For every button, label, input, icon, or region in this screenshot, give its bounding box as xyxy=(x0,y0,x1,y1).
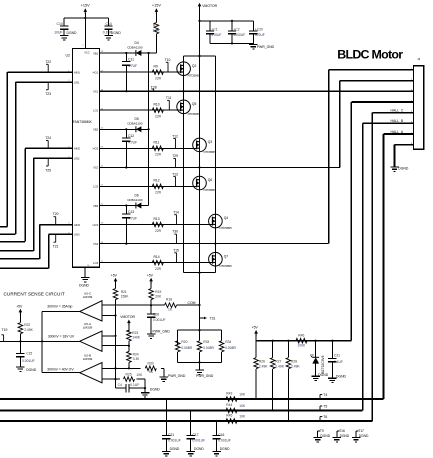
ground PWR_GND at sense xyxy=(195,362,214,378)
svg-text:HO2: HO2 xyxy=(93,147,99,151)
svg-text:R26: R26 xyxy=(259,359,265,363)
wire J2 pin4 hall +5V xyxy=(351,102,413,341)
svg-text:140K: 140K xyxy=(132,336,141,340)
wire 300mV reference xyxy=(0,340,80,342)
svg-text:HO3: HO3 xyxy=(93,223,99,227)
svg-text:T5: T5 xyxy=(323,404,327,408)
resistor R28 2.49K pullup xyxy=(286,341,300,421)
svg-text:R33: R33 xyxy=(203,340,209,344)
svg-text:T20: T20 xyxy=(53,212,59,216)
svg-text:J2: J2 xyxy=(417,57,420,61)
svg-text:C4: C4 xyxy=(118,383,122,387)
svg-text:T14: T14 xyxy=(173,211,179,215)
svg-text:R9: R9 xyxy=(154,64,158,68)
transistor Q2 NTD5865 xyxy=(177,62,201,78)
ground PWR_GND at C28 xyxy=(147,317,171,338)
svg-text:PWR_GND: PWR_GND xyxy=(153,330,171,334)
wire J2 pin6 HALL_B xyxy=(363,119,414,410)
svg-text:R13: R13 xyxy=(154,217,160,221)
svg-text:VS2: VS2 xyxy=(93,166,99,170)
svg-text:NTD5865: NTD5865 xyxy=(219,264,232,268)
svg-text:VMOTOR: VMOTOR xyxy=(202,4,217,8)
svg-text:DGND: DGND xyxy=(111,31,122,35)
svg-text:DGND: DGND xyxy=(318,373,329,377)
svg-text:T12: T12 xyxy=(172,134,178,138)
svg-text:PWR_GND: PWR_GND xyxy=(196,374,214,378)
power +5V at R22 xyxy=(16,305,23,323)
svg-text:HO1: HO1 xyxy=(93,70,99,74)
svg-text:LM339: LM339 xyxy=(83,295,93,299)
J2 pin numbers xyxy=(411,68,413,145)
svg-text:2.49K: 2.49K xyxy=(24,328,33,332)
wire input LIN2 with test point T25 xyxy=(0,158,73,251)
wire J2 pin8 to DGND xyxy=(395,145,414,167)
svg-text:T16: T16 xyxy=(339,429,345,433)
svg-text:R20: R20 xyxy=(181,340,187,344)
resistor R25 10K xyxy=(124,372,146,381)
resistor R27 2.49K pullup xyxy=(270,341,284,411)
svg-text:2.49K: 2.49K xyxy=(259,364,268,368)
resistor R16 2.2R xyxy=(153,23,161,34)
svg-text:C28: C28 xyxy=(153,313,159,317)
svg-text:C31: C31 xyxy=(334,353,340,357)
power +5V at R21 xyxy=(111,274,118,284)
svg-text:LO2: LO2 xyxy=(93,185,99,189)
svg-text:HALL_B: HALL_B xyxy=(391,119,404,123)
svg-text:10K: 10K xyxy=(239,392,246,396)
svg-text:4.7UF: 4.7UF xyxy=(128,64,137,68)
svg-text:+C2: +C2 xyxy=(234,27,240,31)
wire hall bus 2 xyxy=(0,409,363,411)
op-amp driver IC U2 FAN7388MX body xyxy=(66,49,100,268)
svg-text:FAN7388MX: FAN7388MX xyxy=(73,120,93,124)
wire U5-B input lower / R25 node xyxy=(102,378,120,380)
wire reference rail xyxy=(115,316,117,389)
diode D5 CDBA1100 xyxy=(127,117,143,132)
svg-text:DGND: DGND xyxy=(26,368,37,372)
power +5V hall rail xyxy=(252,326,259,341)
svg-text:+5V: +5V xyxy=(147,274,154,278)
svg-text:T11: T11 xyxy=(166,96,172,100)
svg-text:Q6: Q6 xyxy=(208,178,213,182)
svg-text:10K: 10K xyxy=(239,414,246,418)
transistor Q4 NTD5865 xyxy=(209,214,233,230)
svg-text:+5V: +5V xyxy=(111,274,118,278)
wire VMOTOR cap rail xyxy=(198,20,253,31)
svg-text:22R: 22R xyxy=(155,229,162,233)
svg-text:10K: 10K xyxy=(239,404,246,408)
resistor R10 22R gate drive with test point T11 xyxy=(99,96,180,118)
svg-text:R44: R44 xyxy=(226,403,232,407)
zener diode D8 BZT52C3V6 xyxy=(310,341,325,374)
svg-text:COM: COM xyxy=(188,301,196,305)
resistor R20 0.008R xyxy=(175,330,192,362)
svg-text:DGND: DGND xyxy=(336,375,347,379)
svg-text:T15: T15 xyxy=(173,249,179,253)
svg-text:0.008R: 0.008R xyxy=(203,346,214,350)
power +5V at R19 xyxy=(147,274,154,284)
wire input HIN3 with test point T20 xyxy=(0,212,73,259)
test point T16 DGND xyxy=(333,429,350,442)
capacitor C13 4.7UF bootstrap xyxy=(122,206,137,245)
test point T31 xyxy=(200,317,216,321)
svg-text:C15: C15 xyxy=(26,351,32,355)
svg-text:3.3K: 3.3K xyxy=(133,357,141,361)
wire input HIN1 with test point T22 xyxy=(0,60,73,227)
transistor Q3 NTD5865 xyxy=(193,138,217,154)
op-amp U5-B LM339 xyxy=(80,354,102,383)
svg-text:470UF: 470UF xyxy=(212,33,222,37)
resistor R12 22R gate drive with test point T13 xyxy=(99,172,196,194)
wire +5V hall rail horizontal xyxy=(256,340,351,342)
svg-text:DGND: DGND xyxy=(398,167,409,171)
svg-text:0.008R: 0.008R xyxy=(181,346,192,350)
svg-text:HALL_C: HALL_C xyxy=(391,108,404,112)
test point T5 xyxy=(320,404,327,410)
wire VB row D6 xyxy=(99,204,148,206)
resistor R26 2.49K pullup xyxy=(254,341,269,399)
svg-text:R16: R16 xyxy=(153,24,159,28)
svg-text:T6: T6 xyxy=(323,415,327,419)
svg-text:+5V: +5V xyxy=(252,326,259,330)
svg-text:LM339: LM339 xyxy=(83,357,93,361)
resistor R13 22R gate drive with test point T14 xyxy=(99,211,212,233)
svg-text:PWR_GND: PWR_GND xyxy=(168,374,186,378)
test point T4 xyxy=(320,393,327,399)
svg-text:Q5: Q5 xyxy=(192,102,197,106)
svg-text:T4: T4 xyxy=(323,393,327,397)
svg-text:T19: T19 xyxy=(2,328,8,332)
svg-text:470UF: 470UF xyxy=(255,33,265,37)
resistor R24 3.3K xyxy=(127,346,141,369)
svg-text:LO3: LO3 xyxy=(93,261,99,265)
resistor R46 100K xyxy=(296,334,307,348)
wire R16 to bootstrap rail xyxy=(149,34,157,53)
label BLDC Motor xyxy=(337,47,403,61)
svg-text:LIN1: LIN1 xyxy=(74,80,80,84)
capacitor C21 0.001UF hall filter xyxy=(162,399,181,456)
svg-text:R23: R23 xyxy=(132,331,138,335)
svg-text:100K: 100K xyxy=(298,343,307,347)
svg-text:T21: T21 xyxy=(53,245,59,249)
svg-text:CDBA1100: CDBA1100 xyxy=(127,45,143,49)
svg-text:300mV = 35Amp: 300mV = 35Amp xyxy=(47,305,72,309)
ground DGND at J2 pin8 xyxy=(390,167,409,172)
capacitor C31 0.1UF xyxy=(328,341,343,364)
svg-text:C12: C12 xyxy=(128,134,134,138)
svg-text:R18: R18 xyxy=(166,298,172,302)
wire sense box top xyxy=(178,329,222,331)
test point T17 DGND xyxy=(352,429,369,442)
svg-text:R12: R12 xyxy=(154,179,160,183)
svg-text:R11: R11 xyxy=(154,141,160,145)
resistor R23 140K xyxy=(127,330,141,346)
ground DGND at C31 xyxy=(328,362,346,383)
svg-text:DGND: DGND xyxy=(194,447,204,451)
svg-text:NTD5865: NTD5865 xyxy=(204,150,217,154)
wire FET column A xyxy=(183,56,185,273)
svg-text:D4: D4 xyxy=(135,41,139,45)
svg-text:C17: C17 xyxy=(193,433,199,437)
svg-text:R28: R28 xyxy=(291,359,297,363)
wire phase C (VS3) xyxy=(99,230,328,245)
svg-text:22R: 22R xyxy=(155,115,162,119)
svg-text:2200UF: 2200UF xyxy=(234,33,246,37)
svg-text:T9: T9 xyxy=(320,429,324,433)
svg-text:10K: 10K xyxy=(136,373,143,377)
power +15V (VCC rail) xyxy=(81,3,90,48)
svg-text:Q7: Q7 xyxy=(224,254,229,258)
wire J2 pin7 HALL_A xyxy=(384,130,414,399)
capacitor C16 0.001UF hall filter xyxy=(212,421,231,456)
svg-text:T29: T29 xyxy=(172,154,178,158)
svg-text:22R: 22R xyxy=(155,267,162,271)
svg-text:300mV = 18V UV: 300mV = 18V UV xyxy=(48,334,75,338)
resistor R22 2.49K xyxy=(18,323,34,342)
label CURRENT SENSE CIRCUIT xyxy=(4,292,65,297)
wire U5-C inputs xyxy=(102,314,117,316)
svg-text:HALL_A: HALL_A xyxy=(391,130,404,134)
ground DGND at C15 xyxy=(16,357,37,372)
svg-text:C14: C14 xyxy=(106,22,112,26)
svg-text:4.7UF: 4.7UF xyxy=(128,140,137,144)
svg-text:D5: D5 xyxy=(135,117,139,121)
wire FET column C xyxy=(214,56,216,273)
test point T9 DGND xyxy=(313,429,330,442)
svg-text:2.49K: 2.49K xyxy=(275,364,284,368)
svg-text:NTD5865: NTD5865 xyxy=(188,112,201,116)
svg-text:300mV = 40V OV: 300mV = 40V OV xyxy=(47,367,74,371)
svg-text:HIN3: HIN3 xyxy=(74,223,81,227)
svg-text:DGND: DGND xyxy=(79,284,90,288)
capacitor C28 0.001UF xyxy=(147,305,166,322)
svg-text:T23: T23 xyxy=(45,92,51,96)
resistor R34 0.008R xyxy=(219,330,236,362)
wire COM node vertical xyxy=(188,273,201,331)
svg-text:BZT52C3V6: BZT52C3V6 xyxy=(321,355,325,373)
wire J2 pin5 HALL_C xyxy=(372,108,413,421)
resistor R14 22R gate drive with test point T15 xyxy=(99,249,212,271)
resistor R44 10K xyxy=(226,403,246,413)
svg-text:R10: R10 xyxy=(154,103,160,107)
power VMOTOR arrow xyxy=(198,3,218,56)
capacitor C20 470UF xyxy=(249,27,265,37)
svg-text:R27: R27 xyxy=(275,359,281,363)
op-amp U5-A LM339 xyxy=(80,322,102,351)
capacitor C11 4.7UF bootstrap xyxy=(122,53,137,92)
transistor Q5 NTD5865 xyxy=(177,100,201,116)
capacitor C15 0.001UF xyxy=(16,341,34,363)
diode D6 CDBA1100 xyxy=(127,193,143,208)
svg-text:R25: R25 xyxy=(126,372,132,376)
svg-text:LO1: LO1 xyxy=(93,109,99,113)
capacitor C4 0.1UF xyxy=(116,383,146,392)
wire cap bank bottom xyxy=(210,34,253,45)
svg-text:LM339: LM339 xyxy=(83,326,93,330)
wire FET column B xyxy=(199,56,201,273)
svg-text:CDBA1100: CDBA1100 xyxy=(127,198,143,202)
svg-text:T17: T17 xyxy=(358,429,364,433)
svg-text:0.001UF: 0.001UF xyxy=(153,318,166,322)
power +15V (bootstrap feed) xyxy=(152,3,161,22)
resistor R45 10K xyxy=(226,414,246,424)
transistor Q7 NTD5865 xyxy=(209,252,233,268)
svg-text:R14: R14 xyxy=(154,255,160,259)
svg-text:22R: 22R xyxy=(155,76,162,80)
wire sense box bottom xyxy=(178,361,222,363)
svg-text:PWR_GND: PWR_GND xyxy=(257,45,275,49)
svg-text:Q3: Q3 xyxy=(208,140,213,144)
capacitor C10 10UF xyxy=(54,22,68,35)
wire J2 pin1 to phase C xyxy=(329,70,414,244)
svg-text:C11: C11 xyxy=(128,58,134,62)
svg-text:T13: T13 xyxy=(172,172,178,176)
wire input LIN1 with test point T23 xyxy=(0,82,73,234)
svg-text:22R: 22R xyxy=(155,153,162,157)
U2 top pin VCC xyxy=(82,45,89,54)
svg-text:Q4: Q4 xyxy=(224,216,229,220)
wire phase B (VS2) xyxy=(99,154,340,168)
svg-text:158K: 158K xyxy=(121,294,130,298)
svg-text:R43: R43 xyxy=(226,392,232,396)
svg-text:0.1UF: 0.1UF xyxy=(130,383,139,387)
wire hall bus 1 xyxy=(0,398,384,400)
resistor R33 0.008R xyxy=(197,330,214,362)
wire drain rail from VMOTOR xyxy=(184,55,216,57)
resistor R18 1K xyxy=(151,298,199,312)
wire +15V bootstrap rail xyxy=(148,52,150,206)
svg-text:NTD5865: NTD5865 xyxy=(204,188,217,192)
wire low-side source tie xyxy=(184,272,216,274)
wire J2 pin2 to phase B xyxy=(340,81,414,168)
svg-text:T22: T22 xyxy=(45,60,51,64)
svg-text:R45: R45 xyxy=(226,414,232,418)
label 300mV = 35Amp xyxy=(47,305,72,309)
svg-text:C13: C13 xyxy=(128,210,134,214)
svg-text:+15V: +15V xyxy=(152,3,161,7)
transistor Q6 NTD5865 xyxy=(193,176,217,192)
test point T19 xyxy=(1,328,7,341)
wire comparator output bus xyxy=(41,312,80,373)
svg-text:T10: T10 xyxy=(165,58,171,62)
svg-text:0.1UF: 0.1UF xyxy=(334,360,343,364)
svg-text:R34: R34 xyxy=(225,340,231,344)
svg-text:2.49K: 2.49K xyxy=(291,364,300,368)
svg-text:T30: T30 xyxy=(172,230,178,234)
svg-text:R24: R24 xyxy=(133,352,139,356)
wire VB row D4 xyxy=(99,52,148,54)
svg-text:C10: C10 xyxy=(57,22,63,26)
svg-text:VS3: VS3 xyxy=(93,242,99,246)
wire +15V rail to decoupling caps xyxy=(64,17,108,26)
svg-text:0.001UF: 0.001UF xyxy=(168,439,181,443)
resistor R11 22R gate drive with test point T12 xyxy=(99,134,196,156)
svg-text:0.001UF: 0.001UF xyxy=(22,359,35,363)
svg-text:HIN2: HIN2 xyxy=(74,147,81,151)
power VMOTOR at divider xyxy=(120,315,135,331)
svg-text:+C1: +C1 xyxy=(212,27,218,31)
svg-text:LIN2: LIN2 xyxy=(74,157,80,161)
svg-text:T24: T24 xyxy=(45,136,51,140)
ground PWR_GND at cap bank xyxy=(249,43,275,49)
wire U5-A input lower xyxy=(102,345,130,347)
svg-text:4.7UF: 4.7UF xyxy=(128,217,137,221)
wire U5-A input upper xyxy=(102,335,117,337)
svg-text:T31: T31 xyxy=(210,317,216,321)
resistor R21 158K xyxy=(113,282,129,316)
svg-text:NTD5865: NTD5865 xyxy=(219,226,232,230)
svg-text:BLDC Motor: BLDC Motor xyxy=(337,47,403,61)
svg-text:22R: 22R xyxy=(155,191,162,195)
ground PWR_GND at R30 xyxy=(160,368,186,381)
ground DGND at R25/C4 xyxy=(141,379,161,397)
svg-text:LIN3: LIN3 xyxy=(74,233,80,237)
svg-text:DGND: DGND xyxy=(220,447,230,451)
svg-text:NTD5865: NTD5865 xyxy=(188,74,201,78)
wire input LIN3 with test point T21 xyxy=(0,234,73,268)
svg-text:DGND: DGND xyxy=(150,387,161,391)
svg-text:VB2: VB2 xyxy=(93,128,99,132)
U2 left pin names HIN1-LIN3 xyxy=(68,70,80,236)
svg-text:0.008R: 0.008R xyxy=(225,346,236,350)
svg-text:0.001UF: 0.001UF xyxy=(193,439,206,443)
svg-text:Q2: Q2 xyxy=(192,64,197,68)
capacitor C14 0.1UF xyxy=(103,22,113,35)
svg-text:R22: R22 xyxy=(24,323,30,327)
svg-text:T28: T28 xyxy=(151,86,157,90)
resistor R43 10K xyxy=(226,392,246,402)
svg-text:C21: C21 xyxy=(168,433,174,437)
U2 right pin names VB1-LO3 xyxy=(93,51,104,265)
svg-text:+15V: +15V xyxy=(81,3,90,7)
capacitor C2 2200UF xyxy=(228,27,245,37)
svg-text:VB3: VB3 xyxy=(93,204,99,208)
svg-text:R30: R30 xyxy=(148,361,154,365)
resistor R9 22R gate drive with test point T10 xyxy=(99,58,180,80)
svg-text:VMOTOR: VMOTOR xyxy=(120,315,135,319)
test point T6 xyxy=(320,415,327,421)
wire comparator sense line xyxy=(102,304,152,306)
svg-text:20K: 20K xyxy=(155,294,162,298)
wire U5-B input upper xyxy=(102,367,130,369)
svg-text:HIN1: HIN1 xyxy=(74,70,81,74)
wire phase A (VS1) to J2 pin 3 xyxy=(99,86,413,93)
diode D4 CDBA1100 xyxy=(127,41,143,56)
wire VB row D5 xyxy=(99,128,148,130)
svg-text:+5V: +5V xyxy=(16,305,23,309)
svg-text:DGND: DGND xyxy=(67,31,78,35)
svg-text:10UF: 10UF xyxy=(54,30,62,34)
wire input HIN2 with test point T24 xyxy=(0,136,73,242)
svg-text:R46: R46 xyxy=(298,334,304,338)
svg-text:U2: U2 xyxy=(66,54,70,58)
svg-text:CURRENT SENSE CIRCUIT: CURRENT SENSE CIRCUIT xyxy=(4,292,65,297)
svg-text:CDBA1100: CDBA1100 xyxy=(127,122,143,126)
svg-text:C16: C16 xyxy=(218,433,224,437)
ground DGND at C14 xyxy=(104,29,121,40)
svg-text:VCC: VCC xyxy=(84,51,90,55)
svg-text:+C20: +C20 xyxy=(255,27,263,31)
ground DGND at zener xyxy=(311,364,328,381)
wire hall bus 3 xyxy=(0,420,372,422)
svg-text:0.001UF: 0.001UF xyxy=(218,439,231,443)
resistor R30 5K xyxy=(129,361,164,374)
svg-text:D8: D8 xyxy=(310,353,314,357)
capacitor C17 0.001UF hall filter xyxy=(186,411,205,456)
svg-text:2.2R: 2.2R xyxy=(153,29,161,33)
label 300mV = 18V UV xyxy=(48,334,75,338)
label 300mV = 40V OV xyxy=(47,367,74,371)
